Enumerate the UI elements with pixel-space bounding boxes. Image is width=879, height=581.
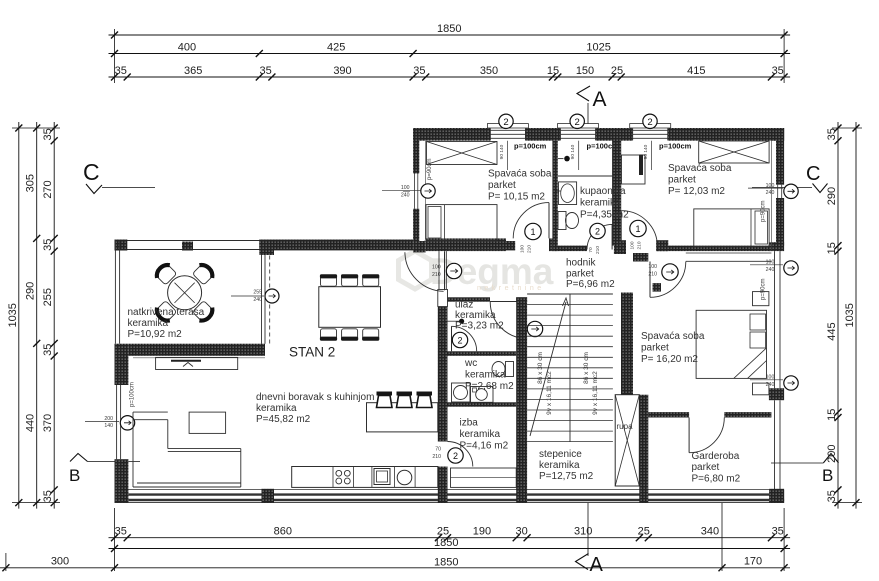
svg-text:70: 70 — [588, 247, 594, 253]
svg-text:Spavaća soba: Spavaća soba — [488, 169, 552, 180]
svg-text:C: C — [806, 163, 820, 185]
svg-text:2: 2 — [647, 117, 652, 128]
svg-text:P=12,75 m2: P=12,75 m2 — [539, 471, 594, 482]
svg-text:290: 290 — [826, 187, 838, 205]
svg-text:parket: parket — [566, 269, 594, 280]
svg-text:2: 2 — [575, 117, 580, 128]
svg-text:2: 2 — [453, 451, 458, 461]
svg-text:p=100cm: p=100cm — [130, 382, 136, 407]
svg-text:izba: izba — [460, 418, 479, 429]
svg-text:P=3,23 m2: P=3,23 m2 — [455, 321, 504, 332]
svg-text:P=6,96 m2: P=6,96 m2 — [566, 279, 615, 290]
svg-text:170: 170 — [744, 556, 762, 568]
svg-text:1850: 1850 — [434, 537, 458, 549]
svg-text:370: 370 — [42, 414, 54, 432]
svg-text:390: 390 — [333, 65, 351, 77]
svg-text:240: 240 — [401, 192, 410, 198]
svg-text:100: 100 — [766, 260, 775, 266]
svg-text:190: 190 — [473, 526, 491, 538]
svg-text:P=4,35 m2: P=4,35 m2 — [580, 210, 629, 221]
svg-text:P= 16,20 m2: P= 16,20 m2 — [641, 354, 698, 365]
svg-text:210: 210 — [432, 272, 441, 278]
svg-text:parket: parket — [488, 180, 516, 191]
svg-text:860: 860 — [274, 526, 292, 538]
svg-text:35: 35 — [42, 490, 54, 502]
svg-text:Spavaća soba: Spavaća soba — [641, 331, 705, 342]
svg-text:keramika: keramika — [460, 429, 501, 440]
svg-text:70: 70 — [435, 447, 441, 453]
svg-text:P=45,82 m2: P=45,82 m2 — [256, 414, 311, 425]
svg-text:290: 290 — [25, 282, 37, 300]
svg-text:2: 2 — [503, 117, 508, 128]
svg-text:A: A — [593, 88, 607, 111]
svg-text:P=6,80 m2: P=6,80 m2 — [692, 474, 741, 485]
svg-text:90 140: 90 140 — [499, 144, 505, 159]
svg-text:p=100cm: p=100cm — [659, 142, 692, 151]
svg-text:25: 25 — [638, 526, 650, 538]
svg-text:100: 100 — [432, 265, 441, 271]
svg-text:210: 210 — [437, 337, 446, 343]
svg-text:Garderoba: Garderoba — [692, 451, 740, 462]
svg-text:15: 15 — [826, 242, 838, 254]
svg-text:wc: wc — [464, 358, 477, 369]
svg-text:35: 35 — [115, 526, 127, 538]
svg-text:210: 210 — [432, 454, 441, 460]
svg-text:2: 2 — [595, 226, 600, 236]
svg-text:STAN 2: STAN 2 — [289, 345, 335, 360]
svg-text:9v x 16,11 mc2: 9v x 16,11 mc2 — [546, 371, 553, 415]
svg-text:1: 1 — [530, 227, 535, 237]
svg-text:200: 200 — [104, 416, 113, 422]
svg-text:240: 240 — [766, 190, 775, 196]
svg-text:35: 35 — [772, 65, 784, 77]
svg-text:25: 25 — [611, 65, 623, 77]
svg-text:rupa: rupa — [617, 422, 634, 431]
svg-text:1850: 1850 — [437, 23, 461, 35]
svg-text:p=100cm: p=100cm — [514, 142, 547, 151]
svg-text:35: 35 — [413, 65, 425, 77]
svg-text:35: 35 — [42, 239, 54, 251]
svg-text:365: 365 — [184, 65, 202, 77]
svg-text:25: 25 — [437, 526, 449, 538]
svg-text:255: 255 — [253, 290, 262, 296]
svg-text:P= 12,03 m2: P= 12,03 m2 — [668, 186, 725, 197]
svg-text:1035: 1035 — [7, 303, 19, 327]
svg-text:B: B — [69, 466, 80, 485]
svg-text:1850: 1850 — [434, 556, 458, 568]
svg-text:P=10,92 m2: P=10,92 m2 — [128, 329, 183, 340]
svg-text:425: 425 — [327, 42, 345, 54]
svg-text:stepenice: stepenice — [539, 449, 582, 460]
svg-text:340: 340 — [701, 526, 719, 538]
svg-text:240: 240 — [253, 297, 262, 303]
svg-text:100: 100 — [401, 185, 410, 191]
svg-text:keramika: keramika — [465, 370, 506, 381]
svg-text:2: 2 — [457, 335, 462, 345]
svg-text:keramika: keramika — [455, 310, 496, 321]
svg-text:255: 255 — [42, 288, 54, 306]
svg-text:nekretnine: nekretnine — [477, 285, 545, 292]
svg-text:305: 305 — [25, 174, 37, 192]
svg-text:keramika: keramika — [128, 318, 169, 329]
svg-text:1025: 1025 — [586, 42, 610, 54]
svg-text:210: 210 — [595, 246, 601, 254]
svg-text:150: 150 — [576, 65, 594, 77]
svg-text:400: 400 — [178, 42, 196, 54]
svg-text:240: 240 — [766, 267, 775, 273]
svg-text:90 140: 90 140 — [643, 144, 649, 159]
svg-text:15: 15 — [826, 409, 838, 421]
svg-text:kupaonica: kupaonica — [580, 186, 626, 197]
svg-text:445: 445 — [826, 322, 838, 340]
svg-text:100: 100 — [648, 264, 657, 270]
svg-text:keramika: keramika — [580, 198, 621, 209]
svg-text:415: 415 — [687, 65, 705, 77]
svg-text:90 140: 90 140 — [570, 144, 576, 159]
svg-text:35: 35 — [772, 526, 784, 538]
svg-text:keramika: keramika — [539, 460, 580, 471]
svg-text:9v x 16,11 mc2: 9v x 16,11 mc2 — [592, 371, 599, 415]
svg-text:parket: parket — [641, 343, 669, 354]
svg-text:30: 30 — [515, 526, 527, 538]
svg-text:P= 10,15 m2: P= 10,15 m2 — [488, 192, 545, 203]
svg-text:natkrivena terasa: natkrivena terasa — [128, 307, 205, 318]
svg-text:B: B — [822, 466, 833, 485]
svg-text:ulaz: ulaz — [455, 300, 473, 311]
svg-text:210: 210 — [648, 272, 657, 278]
svg-text:100: 100 — [520, 245, 526, 253]
svg-text:270: 270 — [42, 180, 54, 198]
svg-text:310: 310 — [574, 526, 592, 538]
svg-text:86 x 30 cm: 86 x 30 cm — [537, 352, 544, 384]
svg-text:C: C — [83, 159, 100, 185]
svg-text:100: 100 — [766, 375, 775, 381]
svg-text:210: 210 — [527, 245, 533, 253]
svg-text:parket: parket — [668, 175, 696, 186]
svg-text:1035: 1035 — [844, 303, 856, 327]
svg-text:100: 100 — [766, 183, 775, 189]
svg-text:440: 440 — [25, 414, 37, 432]
svg-text:300: 300 — [51, 556, 69, 568]
svg-text:p=90cm: p=90cm — [427, 158, 433, 180]
svg-text:15: 15 — [547, 65, 559, 77]
svg-text:350: 350 — [480, 65, 498, 77]
svg-text:parket: parket — [692, 462, 720, 473]
svg-text:p=90cm: p=90cm — [761, 278, 767, 300]
svg-text:P=2,68 m2: P=2,68 m2 — [465, 381, 514, 392]
svg-text:35: 35 — [42, 128, 54, 140]
svg-text:dnevni boravak s kuhinjom: dnevni boravak s kuhinjom — [256, 392, 374, 403]
svg-text:86 x 30 cm: 86 x 30 cm — [583, 352, 590, 384]
svg-text:35: 35 — [826, 490, 838, 502]
svg-text:1: 1 — [635, 224, 640, 234]
svg-text:210: 210 — [637, 241, 643, 249]
svg-text:P=4,16 m2: P=4,16 m2 — [460, 441, 509, 452]
svg-text:35: 35 — [42, 344, 54, 356]
svg-text:35: 35 — [826, 128, 838, 140]
svg-text:A: A — [590, 554, 604, 576]
svg-text:70: 70 — [440, 329, 446, 335]
svg-text:35: 35 — [115, 65, 127, 77]
svg-text:keramika: keramika — [256, 403, 297, 414]
svg-text:140: 140 — [104, 423, 113, 429]
svg-text:35: 35 — [259, 65, 271, 77]
svg-text:hodnik: hodnik — [566, 258, 596, 269]
svg-text:100: 100 — [630, 241, 636, 249]
svg-text:Spavaća soba: Spavaća soba — [668, 163, 732, 174]
